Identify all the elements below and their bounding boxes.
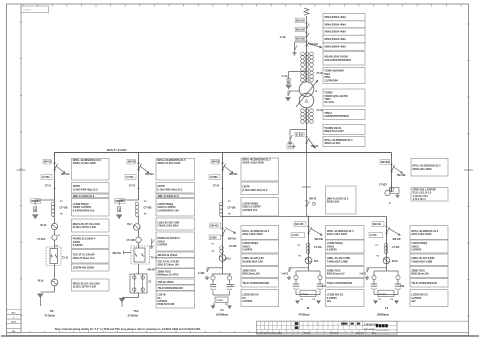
station service transformer [385, 188, 399, 196]
wire capacitor branch right SW-41B [319, 271, 321, 275]
label box bay A1 row 7 [241, 267, 279, 278]
label box bay TB row 9 [72, 279, 110, 291]
svg-text:2000A-31,5kA 40/20: 2000A-31,5kA 40/20 [157, 162, 181, 165]
thyristor switched capacitor block bay T1C [130, 274, 147, 293]
ground SW-41b right [395, 301, 399, 304]
svg-text:4000A-31,5kA: 4000A-31,5kA [324, 142, 340, 145]
current transformer CT-206 core C [310, 68, 314, 82]
svg-text:CT-41E: CT-41E [314, 246, 322, 249]
svg-text:47.0kVar: 47.0kVar [45, 313, 56, 317]
ground bay TB [38, 294, 43, 298]
ground SW-41BZ [287, 276, 291, 280]
label SW-421 [127, 159, 137, 164]
label box bay M row 6 [326, 290, 365, 307]
current transformer branch left bay A1 [211, 276, 215, 280]
label box bay F1 row 1 [410, 226, 448, 240]
label box bay T1C row 5 [156, 218, 195, 230]
svg-text:2000A-3,5kA 40/20: 2000A-3,5kA 40/20 [242, 162, 264, 165]
wire capacitor branch right bay A1 [229, 274, 231, 276]
label box bay A1 row 4 [241, 226, 279, 240]
wire bay A1 node to split [222, 261, 224, 274]
svg-text:0.2/5P20: 0.2/5P20 [411, 249, 422, 252]
capacitor C4ba [371, 284, 377, 289]
label box bay TB row 4 [72, 199, 110, 217]
label box bay TB row 5 [72, 219, 110, 232]
current transformer branch left SW-41B [294, 275, 298, 279]
label box bay T1C row 7 [156, 252, 195, 258]
svg-text:0.2/5P20: 0.2/5P20 [327, 249, 338, 252]
disconnect switch SW-201 [306, 23, 310, 29]
wire branch to earthing switch SW-41BZ [289, 267, 309, 269]
svg-text:CT-42: CT-42 [129, 185, 136, 188]
connector SW-41E into valve enclosure [124, 251, 132, 255]
wire bay T1C upper-mid [138, 216, 140, 224]
svg-text:SW-431: SW-431 [212, 161, 221, 164]
svg-text:SW-421: SW-421 [128, 161, 137, 164]
transfer switch arrow SW-204 [308, 44, 322, 49]
svg-text:220A-3,5kA 40/20: 220A-3,5kA 40/20 [327, 233, 348, 236]
frame tick marks right edge [464, 24, 473, 316]
circuit switch SW-432 [222, 228, 226, 236]
signature lines right of title block [376, 330, 390, 334]
svg-text:JMK-41.5/220-31.5: JMK-41.5/220-31.5 [73, 195, 95, 198]
wire branch to earth switch SW-2E [295, 41, 307, 43]
svg-text:2000A-31,5kA 40/20: 2000A-31,5kA 40/20 [73, 162, 97, 165]
label SW-402 [300, 133, 304, 137]
wire feeder station service bay [391, 153, 393, 192]
label box main column row 6 [323, 52, 365, 66]
svg-text:CT-42B: CT-42B [144, 207, 152, 210]
svg-text:SW-4E2: SW-4E2 [381, 161, 390, 164]
svg-text:SW-201: SW-201 [296, 20, 305, 22]
current transformer CT-41F [384, 243, 388, 254]
revision table left margin [7, 310, 22, 333]
wire riser middle section bus to distribution wire [306, 153, 308, 217]
svg-text:-1,5/-1,5/1 1: -1,5/-1,5/1 1 [412, 198, 426, 201]
svg-text:1×470A: 1×470A [126, 176, 134, 179]
svg-text:1×-2b: 1×-2b [281, 75, 288, 78]
frame tick marks left edge [17, 22, 26, 316]
svg-text:345kV,2000A-40kA: 345kV,2000A-40kA [324, 16, 346, 19]
current transformer CT-4E2 [389, 187, 393, 191]
wire branch to earthing switch SW-43Z [207, 267, 223, 269]
junction dot SW-421 [138, 188, 140, 190]
label box bay F1 row 6 [410, 290, 448, 307]
svg-text:800kV,5mA,10kV: 800kV,5mA,10kV [324, 130, 344, 133]
label box bay T1C row 4 [156, 199, 195, 217]
current transformer CT-205 core C [310, 52, 314, 66]
svg-text:(1.5kV-4000-40a) 31,5: (1.5kV-4000-40a) 31,5 [157, 188, 183, 191]
capacitor C3a bay A1 [210, 285, 216, 290]
label box bay A1 row 8 [241, 279, 279, 288]
ground right of valve bay T1C [149, 244, 153, 248]
svg-text:SW-411: SW-411 [44, 161, 53, 164]
svg-text:SW-40A: SW-40A [31, 200, 40, 203]
wire capacitor branch right SW-41b [397, 271, 399, 275]
ground SW-41bZ [365, 276, 369, 280]
svg-text:CT-41B: CT-41B [127, 239, 135, 242]
svg-text:RL2: RL2 [127, 224, 132, 226]
svg-text:TSLD-4700/9450kVAR: TSLD-4700/9450kVAR [411, 282, 437, 285]
label box bay A1 row 2 [241, 182, 279, 195]
ground station service transformer [395, 194, 399, 198]
lower distribution wire [223, 216, 387, 218]
earthing switch symbol SW-41bZ [365, 268, 370, 280]
label box bay T1C row 2 [156, 183, 195, 194]
svg-text:Note: Internal wiring details: Note: Internal wiring details for "L1" i… [55, 327, 201, 331]
svg-text:8000,2kvar,1kV: 8000,2kvar,1kV [411, 273, 429, 276]
ground secondary earthing switch [288, 140, 292, 144]
svg-text:CT-41: CT-41 [45, 185, 52, 188]
ground bay SW-411 arrester [33, 215, 38, 219]
circuit breaker SW-202 [306, 32, 310, 38]
label box main column row 7 [323, 68, 365, 84]
transfer arrow SW-42A [140, 166, 150, 174]
current transformer CT-42B [135, 202, 139, 216]
ground below arrester F-1b [286, 85, 291, 89]
svg-text:1kV: 1kV [411, 300, 416, 303]
wire feeder SW-41b from distribution wire [386, 217, 388, 265]
wire branch to earthing switch SW-41bZ [367, 267, 387, 269]
label box JMK-41.5/220-31.5 [326, 186, 357, 214]
earth switch right of valve bay T1C [149, 239, 154, 249]
svg-text:1×-2E: 1×-2E [280, 36, 287, 39]
svg-text:1×47A: 1×47A [292, 234, 299, 237]
svg-text:PGW-59-55-3B: PGW-59-55-3B [157, 303, 174, 306]
svg-text:C14019: C14019 [23, 10, 31, 12]
wire feeder SW-41B from distribution wire [308, 217, 310, 265]
main bus 41.5kV [55, 152, 392, 154]
surge arrester bay SW-421 [118, 207, 121, 212]
svg-text:T1C: T1C [134, 309, 139, 313]
svg-text:SW-42A: SW-42A [145, 173, 154, 176]
capacitor C3b bay A1 [226, 285, 232, 290]
svg-text:345kV,2000A-40kA: 345kV,2000A-40kA [324, 31, 346, 34]
svg-text:8000,2kvar,1kV: 8000,2kvar,1kV [242, 273, 260, 276]
label SW-41B [294, 222, 306, 227]
label SW-431 [211, 159, 221, 164]
svg-text:SW-43x: SW-43x [228, 237, 237, 240]
label box bay F1 row 2 [410, 240, 448, 253]
label box bay TB row 2 [72, 183, 110, 194]
ground SW-41b left [374, 301, 378, 304]
svg-text:2500A,3kA: 2500A,3kA [327, 201, 340, 204]
svg-text:1×258A: 1×258A [210, 176, 218, 179]
label box bay TB row 8 [72, 264, 110, 271]
label 1×258A SW-431 [209, 175, 220, 180]
capacitor C4b [317, 284, 323, 289]
incoming 230kV overhead line [304, 8, 309, 22]
label SW-411 [43, 159, 53, 164]
label box bay M row 5 [326, 279, 365, 288]
label box bay M row 4 [326, 267, 365, 278]
capacitor join bar SW-41B [296, 294, 320, 296]
thyristor controlled reactor valve bay T1C [134, 248, 145, 262]
wire incomer upper [306, 22, 308, 52]
junction dot tee A1 [222, 216, 224, 218]
svg-text:7.8kW,425A 5,08B: 7.8kW,425A 5,08B [327, 260, 348, 263]
svg-text:1×470A: 1×470A [42, 176, 50, 179]
svg-text:SW-41F: SW-41F [147, 269, 156, 272]
svg-text:200A,37.5kvar 1kV: 200A,37.5kvar 1kV [157, 264, 179, 267]
svg-text:(1.5kV-4000-40a) 31,5: (1.5kV-4000-40a) 31,5 [242, 189, 268, 192]
ground bay SW-421 arrester [117, 215, 122, 219]
svg-text:8000kcps,1k 475A: 8000kcps,1k 475A [157, 274, 179, 277]
label SW-201 [295, 18, 305, 23]
wire stub below ground bay TB [39, 298, 41, 306]
current transformer CT-43C [220, 246, 224, 253]
label SW-432 [210, 223, 221, 228]
label box bay A1 row 5 [241, 240, 279, 253]
label 1x2004 [287, 144, 296, 149]
ground SW-43Z [205, 276, 209, 280]
transfer arrow SW-40E [393, 167, 403, 174]
svg-text:220A-3,5kA 40/20: 220A-3,5kA 40/20 [242, 233, 263, 236]
svg-text:CT-41B: CT-41B [37, 238, 45, 241]
svg-text:1×43Z: 1×43Z [198, 272, 205, 275]
label box station service row 2 [411, 188, 448, 202]
disconnect switch SW-401 [306, 136, 310, 143]
label SW-4E2 [380, 160, 390, 165]
svg-text:Uk=12%: Uk=12% [324, 101, 334, 104]
svg-text:35,5kW,425A 5,08: 35,5kW,425A 5,08 [242, 260, 263, 263]
svg-text:Approved: Approved [356, 331, 364, 334]
title zone box top-left [21, 6, 49, 13]
svg-text:TB: TB [50, 309, 54, 313]
svg-text:0.2/5P20: 0.2/5P20 [242, 300, 253, 303]
capacitor bank top bar bay A1 [212, 273, 232, 275]
earthing switch transformer neutral [286, 92, 291, 101]
label SW-40B [115, 199, 125, 204]
reactor RL2 [134, 224, 141, 231]
label box main column row 2 [323, 21, 365, 28]
svg-text:JSCFM-40k 2500A: JSCFM-40k 2500A [73, 267, 95, 270]
svg-text:TSLD-11000/9450kVAR: TSLD-11000/9450kVAR [242, 282, 269, 285]
earthing switch SW-43Z symbol [205, 268, 210, 280]
svg-text:SW-41B: SW-41B [295, 223, 304, 226]
label 1x47A SW-41B [291, 233, 305, 238]
current transformer CT-41E [306, 243, 310, 254]
label SW-203 [295, 36, 305, 41]
on-load tap changer arrow [296, 80, 318, 107]
wire bay TB upper-mid [54, 200, 56, 223]
label box bay M row 2 [326, 240, 365, 253]
wire capacitor split SW-41B [308, 264, 310, 271]
junction dot SW-411 [54, 188, 56, 190]
label box bay M row 1 [326, 226, 365, 240]
label box bay F1 row 4 [410, 267, 448, 278]
svg-text:10000kvar: 10000kvar [377, 312, 390, 316]
label box bay TB row 1 [72, 159, 110, 181]
main transformer T1 150MVA 230/34.5kV [299, 82, 314, 108]
capacitor C4a [293, 284, 299, 289]
svg-text:1×47A: 1×47A [370, 234, 377, 237]
svg-text:31,5kA,157VA 4-150: 31,5kA,157VA 4-150 [73, 226, 97, 229]
label box bay A1 row 9 [241, 290, 279, 307]
svg-text:CT-2b: CT-2b [317, 73, 324, 75]
current transformer branch right bay A1 [227, 276, 231, 280]
wire feeder SW-431 from bus [222, 153, 224, 201]
drawing number C14019-C066 [364, 324, 379, 331]
svg-text:SW-4b: SW-4b [311, 145, 319, 148]
label SW-202 [295, 27, 305, 32]
svg-text:CT-43B: CT-43B [228, 207, 236, 210]
svg-text:SW-43A: SW-43A [229, 173, 238, 176]
transfer arrow SW-40E [311, 229, 323, 236]
label 1×470A SW-411 [41, 175, 52, 180]
svg-text:1×2004: 1×2004 [288, 145, 296, 148]
svg-text:200A,37.5kvar 1kV: 200A,37.5kvar 1kV [73, 257, 95, 260]
label box main column row 1 [323, 14, 365, 21]
svg-text:RL4: RL4 [314, 260, 319, 263]
svg-text:C4b: C4b [400, 285, 405, 288]
wire capacitor split SW-41b [386, 264, 388, 271]
label box bay TB row 3 [72, 194, 110, 198]
svg-text:RL3b: RL3b [41, 225, 47, 227]
svg-text:Checked: Checked [330, 332, 338, 334]
ground bay A1 right [228, 306, 232, 309]
wire incomer mid [306, 52, 308, 82]
capacitor join bar SW-41b [374, 294, 398, 296]
svg-text:CT-43: CT-43 [213, 185, 220, 188]
svg-text:1×58A: 1×58A [210, 236, 217, 239]
current transformer CT-401 core C [310, 109, 314, 123]
svg-text:Date: Date [11, 321, 17, 324]
current transformer CT-41B [51, 202, 55, 216]
label SW-41b [372, 222, 384, 227]
label box bay A1 row 3 [241, 198, 279, 217]
svg-text:CT-4E2: CT-4E2 [379, 184, 388, 187]
ground bay A1 left [211, 306, 215, 309]
current transformer branch right SW-41b [396, 275, 400, 279]
ground SW-2E [292, 51, 296, 55]
svg-text:CT-43Z: CT-43Z [216, 299, 224, 302]
svg-text:RL3: RL3 [226, 259, 231, 261]
svg-text:CT-41F: CT-41F [392, 246, 400, 249]
junction box CT-4Ca [300, 290, 316, 296]
ground SW-41B right [317, 301, 321, 304]
capacitor bank top bar SW-41b [374, 270, 398, 272]
frame tick marks top edge [23, 4, 461, 7]
svg-text:8000,2kvar,1kV: 8000,2kvar,1kV [327, 273, 345, 276]
svg-text:1kV: 1kV [327, 300, 332, 303]
frame tick marks bottom edge [30, 331, 249, 333]
svg-text:CT-41B: CT-41B [60, 207, 68, 210]
label box bay T1C row 11 [156, 285, 195, 291]
svg-text:SW-202: SW-202 [296, 29, 305, 31]
svg-text:SVC 41.5kV: SVC 41.5kV [364, 328, 376, 331]
label box bay T1C row 8 [156, 258, 195, 268]
disconnect switch SW-421 [138, 162, 142, 170]
current transformer CT-206 core A [301, 68, 305, 82]
svg-text:1×41Z: 1×41Z [359, 272, 366, 275]
wire branch to surge arrester F-1b [289, 71, 307, 73]
label box bay TB row 6 [72, 236, 110, 249]
svg-text:0.2/5P20 1kV: 0.2/5P20 1kV [242, 209, 257, 212]
wire feeder SW-421 from bus [138, 153, 140, 201]
title block [257, 321, 398, 335]
svg-text:0.2/5P20: 0.2/5P20 [73, 244, 84, 247]
disconnect switch SW-4E2 [391, 164, 395, 172]
svg-text:TSLD-5000/9450kVAR: TSLD-5000/9450kVAR [157, 287, 183, 290]
capacitor bank bottom bar bay A1 [213, 294, 230, 296]
label box main column row 11 [323, 137, 365, 147]
wire feeder bay A1 through distribution tee [222, 200, 224, 264]
label box station service row 1 [411, 159, 448, 177]
wire transformer secondary [306, 108, 308, 153]
svg-text:SW-40E: SW-40E [315, 238, 324, 241]
svg-text:31,5kA,157VA 4-150: 31,5kA,157VA 4-150 [73, 286, 97, 289]
disconnect switch SW-431 [222, 162, 226, 170]
svg-text:SW-432: SW-432 [210, 225, 219, 228]
label box bay F1 row 3 [410, 254, 448, 266]
current transformer CT-401 core B [305, 109, 309, 123]
ground SW-41B left [296, 301, 300, 304]
label box bay T1C row 1 [156, 159, 195, 181]
svg-text:11000kvar: 11000kvar [216, 312, 228, 316]
wire capacitor branch left SW-41B [295, 271, 297, 275]
junction dot tee M [308, 216, 310, 218]
wire bay TB to ground leg [54, 286, 56, 292]
earthing switch symbol SW-41BZ [287, 268, 292, 280]
wire branch to arrester at bay SW-421 [119, 199, 138, 201]
current transformer branch left SW-41b [372, 275, 376, 279]
svg-text:47.0kVar: 47.0kVar [128, 313, 139, 317]
label 1x47A SW-41b [369, 233, 383, 238]
disconnect switch SW-43 [306, 200, 310, 206]
svg-text:CT-43C: CT-43C [229, 245, 237, 248]
current transformer CT-206 core B [305, 68, 309, 82]
current transformer CT-205 core B [305, 52, 309, 66]
thyristor valve enclosure bay T1C (dashed) [131, 246, 150, 264]
label SW-40A [31, 199, 41, 204]
label box bay T1C row 6 [156, 232, 195, 251]
svg-text:JCB-4k 2500A: JCB-4k 2500A [157, 281, 174, 284]
label SW-401 [295, 133, 299, 137]
reactor RL4b [383, 257, 390, 264]
label 1×470A SW-421 [125, 175, 136, 180]
svg-text:220A-3,5kA 40/20: 220A-3,5kA 40/20 [411, 233, 432, 236]
earthing switch secondary symbol [288, 135, 293, 144]
label box bay A1 row 6 [241, 254, 279, 266]
label box main column row 5 [323, 43, 365, 50]
svg-text:0.2/5P20/5P20 1kV: 0.2/5P20/5P20 1kV [73, 209, 95, 212]
transfer arrow SW-402 [309, 139, 316, 149]
svg-text:7.8kW,425A 5,08B: 7.8kW,425A 5,08B [411, 260, 432, 263]
svg-text:SW-41b: SW-41b [373, 223, 382, 226]
label box bay T1C row 10 [156, 279, 195, 285]
drawing title block characters [376, 324, 388, 327]
current transformer CT-205 core A [301, 52, 305, 66]
svg-text:1×41Z: 1×41Z [281, 272, 288, 275]
disconnect switch SW-411 [54, 162, 58, 170]
label box bay T1C row 3 [156, 194, 195, 198]
svg-text:SW-40E: SW-40E [397, 174, 406, 177]
current transformer CT-42B main circle [136, 237, 142, 243]
capacitor C4bb [395, 284, 401, 289]
wire transformer neutral to earthing switch [288, 90, 299, 92]
svg-text:BUS T"-41.5kV: BUS T"-41.5kV [107, 148, 127, 152]
svg-text:RL3b: RL3b [38, 280, 44, 282]
surge arrester bay SW-411 [34, 207, 37, 212]
label box bay A1 row 1 [241, 158, 279, 181]
svg-text:JSCFM-4k 2500A: JSCFM-4k 2500A [157, 254, 177, 257]
transfer arrow SW-43A lower [225, 228, 236, 234]
svg-text:Date: Date [372, 332, 376, 335]
ground bay T1C [119, 298, 124, 302]
current transformer branch right SW-41B [318, 275, 322, 279]
reactor RL4 [305, 257, 312, 264]
